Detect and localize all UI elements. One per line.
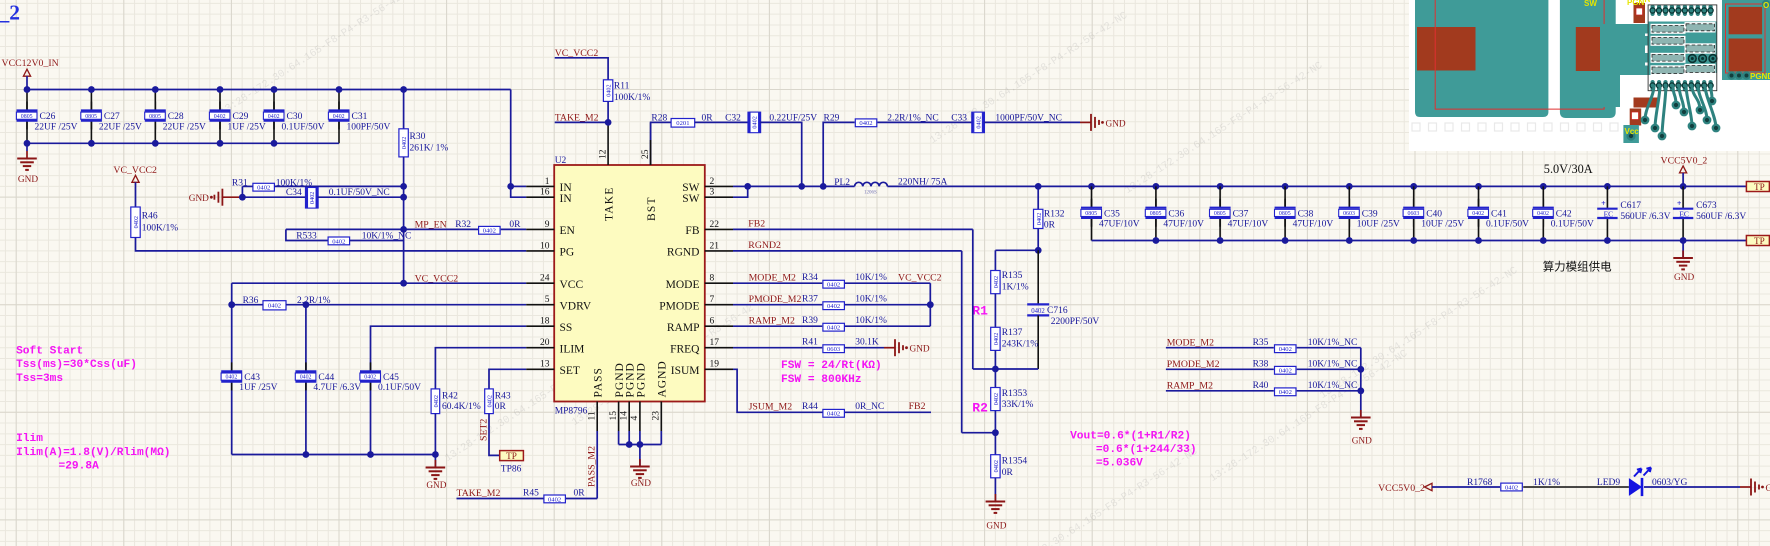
svg-text:0.1UF/50V: 0.1UF/50V	[282, 122, 325, 132]
svg-text:R34: R34	[802, 273, 818, 283]
svg-text:10K/1%: 10K/1%	[855, 273, 887, 283]
svg-text:0402: 0402	[1472, 211, 1484, 217]
svg-text:0R: 0R	[1002, 468, 1014, 478]
svg-text:_2: _2	[0, 1, 20, 25]
svg-text:R46: R46	[142, 212, 158, 222]
svg-text:VCC5V0_2: VCC5V0_2	[1378, 483, 1425, 494]
svg-text:0402: 0402	[483, 228, 496, 235]
svg-text:18: 18	[540, 317, 550, 327]
svg-text:19: 19	[710, 360, 720, 370]
svg-text:10K/1%: 10K/1%	[855, 316, 887, 326]
svg-text:14: 14	[619, 411, 629, 421]
svg-text:1UF /25V: 1UF /25V	[239, 383, 277, 393]
svg-text:0603: 0603	[1408, 211, 1420, 217]
svg-text:1K/1%: 1K/1%	[1533, 478, 1560, 488]
svg-text:0402: 0402	[1537, 211, 1549, 217]
svg-text:C44: C44	[318, 373, 334, 383]
svg-text:100K/1%: 100K/1%	[142, 224, 179, 234]
svg-text:VC_VCC2: VC_VCC2	[898, 273, 942, 284]
svg-text:C33: C33	[951, 113, 967, 123]
svg-text:17: 17	[710, 338, 720, 348]
svg-text:IN: IN	[560, 193, 573, 205]
svg-text:0R: 0R	[702, 113, 714, 123]
svg-text:1: 1	[545, 177, 550, 187]
svg-text:10UF /25V: 10UF /25V	[1421, 220, 1464, 230]
svg-text:C31: C31	[352, 112, 368, 122]
svg-text:FB2: FB2	[909, 401, 926, 412]
svg-text:1K/1%: 1K/1%	[1002, 282, 1029, 292]
svg-text:PMODE: PMODE	[659, 301, 699, 313]
svg-text:GND: GND	[631, 479, 651, 489]
svg-text:100K/1%: 100K/1%	[614, 93, 651, 103]
svg-text:C673: C673	[1696, 201, 1717, 211]
svg-text:0402: 0402	[268, 114, 280, 120]
svg-text:R43: R43	[495, 392, 511, 402]
svg-text:0R_NC: 0R_NC	[855, 402, 884, 412]
svg-text:R37: R37	[802, 295, 818, 305]
svg-text:10: 10	[540, 241, 550, 251]
svg-text:560UF /6.3V: 560UF /6.3V	[1696, 212, 1746, 222]
svg-text:=29.8A: =29.8A	[59, 460, 100, 472]
svg-text:R31: R31	[232, 178, 248, 188]
svg-text:ILIM: ILIM	[560, 344, 585, 356]
svg-text:0402: 0402	[268, 303, 281, 310]
svg-text:Vout=0.6*(1+R1/R2): Vout=0.6*(1+R1/R2)	[1070, 430, 1191, 442]
svg-text:0402: 0402	[300, 375, 312, 381]
svg-text:1206S: 1206S	[864, 190, 877, 195]
svg-text:R45: R45	[523, 488, 539, 498]
svg-text:0402: 0402	[1279, 346, 1292, 353]
svg-text:EN: EN	[560, 225, 576, 237]
svg-text:R38: R38	[1253, 360, 1269, 370]
svg-text:0402: 0402	[309, 192, 316, 204]
svg-text:2200PF/50V: 2200PF/50V	[1051, 317, 1100, 327]
svg-text:R132: R132	[1044, 210, 1065, 220]
svg-text:0402: 0402	[1279, 389, 1292, 396]
svg-text:5.0V/30A: 5.0V/30A	[1544, 162, 1593, 176]
svg-text:0805: 0805	[149, 114, 161, 120]
svg-text:R1768: R1768	[1467, 478, 1493, 488]
svg-text:0402: 0402	[993, 460, 1000, 472]
svg-text:4.7UF /6.3V: 4.7UF /6.3V	[313, 383, 361, 393]
svg-text:0402: 0402	[548, 496, 561, 503]
svg-text:22UF /25V: 22UF /25V	[99, 122, 142, 132]
svg-text:22UF /25V: 22UF /25V	[163, 122, 206, 132]
svg-text:0402: 0402	[827, 411, 840, 418]
svg-text:+: +	[1601, 199, 1606, 208]
svg-text:MP8796: MP8796	[555, 406, 588, 416]
svg-text:R35: R35	[1253, 338, 1269, 348]
svg-text:0402: 0402	[827, 325, 840, 332]
svg-text:C38: C38	[1298, 209, 1314, 219]
svg-text:0402: 0402	[364, 375, 376, 381]
svg-text:47UF/10V: 47UF/10V	[1099, 220, 1140, 230]
svg-text:TP: TP	[1754, 182, 1765, 192]
svg-text:25: 25	[641, 149, 651, 159]
svg-text:1UF /25V: 1UF /25V	[228, 122, 266, 132]
svg-text:Vcc: Vcc	[1625, 127, 1640, 136]
svg-text:GND: GND	[1674, 273, 1694, 283]
svg-text:C37: C37	[1233, 209, 1249, 219]
svg-text:20: 20	[540, 338, 550, 348]
svg-text:RAMP: RAMP	[667, 322, 700, 334]
svg-text:0805: 0805	[21, 114, 33, 120]
svg-text:0603: 0603	[1343, 211, 1355, 217]
svg-text:0805: 0805	[1085, 211, 1097, 217]
svg-text:3: 3	[710, 188, 715, 198]
svg-text:10K/1%_NC: 10K/1%_NC	[1308, 360, 1358, 370]
svg-text:C32: C32	[725, 113, 741, 123]
svg-text:261K/ 1%: 261K/ 1%	[410, 144, 449, 154]
svg-text:0.1UF/50V: 0.1UF/50V	[1551, 220, 1594, 230]
svg-text:PL2: PL2	[834, 178, 850, 188]
svg-text:22: 22	[710, 220, 720, 230]
svg-text:0603: 0603	[827, 346, 841, 353]
svg-text:R40: R40	[1253, 381, 1269, 391]
svg-text:C27: C27	[104, 112, 120, 122]
svg-text:13: 13	[540, 360, 550, 370]
svg-text:GND: GND	[910, 345, 930, 355]
svg-text:TAKE_M2: TAKE_M2	[457, 488, 501, 499]
svg-text:5: 5	[545, 295, 550, 305]
svg-text:23: 23	[652, 411, 662, 421]
svg-text:SW: SW	[682, 193, 699, 205]
svg-text:R42: R42	[442, 392, 458, 402]
svg-text:JSUM_M2: JSUM_M2	[749, 402, 793, 413]
svg-text:FB: FB	[685, 225, 699, 237]
svg-text:TP86: TP86	[501, 464, 522, 474]
svg-text:R28: R28	[651, 113, 667, 123]
svg-text:0R: 0R	[1044, 220, 1056, 230]
svg-text:PASS_M2: PASS_M2	[586, 446, 597, 487]
svg-text:0402: 0402	[226, 375, 238, 381]
svg-text:R135: R135	[1002, 271, 1023, 281]
svg-text:R137: R137	[1002, 328, 1023, 338]
svg-text:PG: PG	[560, 247, 575, 259]
svg-text:0.1UF/50V_NC: 0.1UF/50V_NC	[329, 188, 390, 198]
svg-text:R39: R39	[802, 316, 818, 326]
svg-text:0603/YG: 0603/YG	[1652, 478, 1688, 488]
svg-text:0201: 0201	[676, 120, 689, 127]
svg-text:U2: U2	[555, 156, 567, 166]
svg-text:8: 8	[710, 274, 715, 284]
svg-text:10UF /25V: 10UF /25V	[1357, 220, 1400, 230]
svg-text:0402: 0402	[433, 395, 440, 407]
svg-text:C43: C43	[244, 373, 260, 383]
svg-text:RAMP_M2: RAMP_M2	[749, 316, 795, 327]
svg-text:0402: 0402	[401, 137, 408, 149]
svg-text:0805: 0805	[85, 114, 97, 120]
svg-text:0402: 0402	[1505, 484, 1518, 491]
svg-text:0.22UF/25V: 0.22UF/25V	[769, 113, 817, 123]
svg-text:C35: C35	[1104, 209, 1120, 219]
svg-text:C26: C26	[40, 112, 56, 122]
svg-text:0402: 0402	[214, 114, 226, 120]
svg-text:0402: 0402	[333, 114, 345, 120]
svg-text:47UF/10V: 47UF/10V	[1228, 220, 1269, 230]
svg-text:2: 2	[710, 177, 715, 187]
svg-text:0402: 0402	[752, 116, 759, 128]
svg-text:RGND2: RGND2	[748, 240, 781, 251]
svg-text:R41: R41	[802, 338, 818, 348]
svg-text:FSW = 24/Rt(KΩ): FSW = 24/Rt(KΩ)	[781, 360, 882, 372]
svg-text:24: 24	[540, 274, 550, 284]
svg-text:0.1UF/50V: 0.1UF/50V	[1486, 220, 1529, 230]
svg-text:0805: 0805	[1150, 211, 1162, 217]
svg-text:AGND: AGND	[657, 360, 669, 397]
svg-text:11: 11	[587, 411, 597, 420]
svg-text:SET: SET	[560, 365, 580, 377]
svg-text:0R: 0R	[495, 402, 507, 412]
svg-text:EC: EC	[1604, 210, 1614, 219]
svg-text:C39: C39	[1362, 209, 1378, 219]
svg-text:1000PF/50V_NC: 1000PF/50V_NC	[995, 113, 1062, 123]
svg-text:FREQ: FREQ	[670, 344, 700, 356]
svg-text:RGND: RGND	[667, 247, 700, 259]
svg-text:33K/1%: 33K/1%	[1002, 400, 1034, 410]
svg-text:220NH/ 75A: 220NH/ 75A	[898, 178, 947, 188]
svg-text:EC: EC	[1679, 210, 1689, 219]
svg-text:0402: 0402	[993, 276, 1000, 288]
svg-text:=0.6*(1+244/33): =0.6*(1+244/33)	[1096, 444, 1197, 456]
svg-text:PMODE_M2: PMODE_M2	[749, 294, 802, 305]
svg-text:算力模组供电: 算力模组供电	[1543, 260, 1612, 274]
svg-text:0805: 0805	[1214, 211, 1226, 217]
svg-text:0402: 0402	[1031, 308, 1045, 315]
svg-text:GND: GND	[426, 481, 446, 491]
svg-text:47UF/10V: 47UF/10V	[1163, 220, 1204, 230]
svg-text:PASS: PASS	[593, 367, 605, 397]
svg-text:9: 9	[545, 220, 550, 230]
svg-text:16: 16	[540, 188, 550, 198]
svg-text:FB2: FB2	[748, 219, 765, 230]
svg-text:Tss=3ms: Tss=3ms	[16, 373, 63, 385]
svg-text:Ilim: Ilim	[16, 433, 43, 445]
svg-text:0402: 0402	[487, 395, 494, 407]
svg-text:Ilim(A)=1.8(V)/Rlim(MΩ): Ilim(A)=1.8(V)/Rlim(MΩ)	[16, 447, 170, 459]
svg-text:0402: 0402	[606, 84, 613, 96]
svg-text:10K/1%: 10K/1%	[855, 295, 887, 305]
svg-text:TAKE: TAKE	[604, 186, 616, 221]
svg-text:560UF /6.3V: 560UF /6.3V	[1620, 212, 1670, 222]
svg-text:2.2R/1%: 2.2R/1%	[297, 296, 331, 306]
svg-text:PGND: PGND	[1750, 72, 1770, 81]
svg-text:0.1UF/50V: 0.1UF/50V	[378, 383, 421, 393]
svg-text:R32: R32	[455, 220, 471, 230]
svg-text:0805: 0805	[1279, 211, 1291, 217]
svg-text:C28: C28	[168, 112, 184, 122]
svg-text:GND: GND	[986, 522, 1006, 532]
svg-text:R44: R44	[802, 402, 818, 412]
svg-text:C42: C42	[1556, 209, 1572, 219]
svg-text:22UF /25V: 22UF /25V	[35, 122, 78, 132]
svg-text:SET2: SET2	[479, 419, 490, 441]
svg-text:SS: SS	[560, 322, 573, 334]
svg-text:LED9: LED9	[1597, 478, 1620, 488]
svg-text:MODE: MODE	[666, 279, 700, 291]
svg-text:60.4K/1%: 60.4K/1%	[442, 402, 481, 412]
svg-text:VCC: VCC	[560, 279, 584, 291]
svg-text:R11: R11	[614, 82, 630, 92]
svg-text:0402: 0402	[975, 116, 982, 128]
svg-text:BST: BST	[646, 196, 658, 221]
svg-text:C29: C29	[233, 112, 249, 122]
svg-text:=5.036V: =5.036V	[1096, 458, 1143, 470]
svg-text:C40: C40	[1426, 209, 1442, 219]
svg-text:+: +	[1677, 199, 1682, 208]
svg-text:C617: C617	[1620, 201, 1641, 211]
svg-text:0402: 0402	[993, 333, 1000, 345]
svg-text:GND: GND	[1766, 484, 1770, 494]
svg-text:21: 21	[710, 241, 720, 251]
svg-text:10K/1%_NC: 10K/1%_NC	[1308, 381, 1358, 391]
svg-text:0402: 0402	[827, 303, 840, 310]
svg-text:0402: 0402	[257, 185, 270, 192]
svg-text:VCC5V0_2: VCC5V0_2	[1661, 155, 1708, 166]
svg-text:C716: C716	[1047, 306, 1068, 316]
svg-text:4: 4	[630, 416, 640, 421]
svg-text:ISUM: ISUM	[671, 365, 700, 377]
svg-text:MODE_M2: MODE_M2	[749, 273, 796, 284]
svg-text:TP: TP	[506, 451, 517, 461]
svg-text:C34: C34	[286, 188, 302, 198]
svg-text:C36: C36	[1168, 209, 1184, 219]
svg-text:0R: 0R	[509, 220, 521, 230]
svg-text:12: 12	[598, 149, 608, 159]
svg-text:100K/1%: 100K/1%	[276, 178, 313, 188]
svg-text:SW: SW	[1584, 0, 1597, 8]
svg-text:6: 6	[710, 317, 715, 327]
svg-text:0402: 0402	[1279, 368, 1292, 375]
svg-text:GND: GND	[18, 175, 38, 185]
svg-text:R30: R30	[410, 132, 426, 142]
svg-text:C41: C41	[1491, 209, 1507, 219]
svg-text:R1354: R1354	[1002, 457, 1028, 467]
svg-text:Tss(ms)=30*Css(uF): Tss(ms)=30*Css(uF)	[16, 359, 137, 371]
svg-text:VDRV: VDRV	[560, 301, 592, 313]
svg-text:30.1K: 30.1K	[855, 338, 879, 348]
svg-text:VCC12V0_IN: VCC12V0_IN	[2, 58, 59, 69]
svg-text:R2: R2	[972, 401, 988, 416]
svg-text:15: 15	[609, 411, 619, 421]
svg-text:0402: 0402	[332, 238, 345, 245]
svg-text:100PF/50V: 100PF/50V	[347, 122, 391, 132]
svg-text:C30: C30	[287, 112, 303, 122]
svg-text:R1353: R1353	[1002, 389, 1028, 399]
svg-text:R36: R36	[243, 296, 259, 306]
svg-text:TP: TP	[1754, 236, 1765, 246]
svg-text:0R: 0R	[574, 488, 586, 498]
svg-text:Soft Start: Soft Start	[16, 346, 83, 358]
svg-text:0402: 0402	[827, 282, 840, 289]
svg-text:47UF/10V: 47UF/10V	[1293, 220, 1334, 230]
svg-text:0402: 0402	[859, 120, 872, 127]
svg-text:O: O	[1763, 1, 1769, 10]
svg-text:GND: GND	[1106, 119, 1126, 129]
svg-text:10K/1%_NC: 10K/1%_NC	[362, 231, 412, 241]
svg-text:R1: R1	[972, 304, 988, 319]
svg-text:C45: C45	[383, 373, 399, 383]
svg-text:7: 7	[710, 295, 715, 305]
svg-text:FSW = 800KHz: FSW = 800KHz	[781, 374, 862, 386]
svg-text:GND: GND	[189, 194, 209, 204]
svg-text:0402: 0402	[1036, 213, 1043, 225]
svg-text:R29: R29	[824, 113, 840, 123]
svg-text:R533: R533	[296, 231, 317, 241]
svg-text:PGND: PGND	[635, 362, 647, 397]
svg-text:2.2R/1%_NC: 2.2R/1%_NC	[887, 113, 938, 123]
svg-text:GND: GND	[1352, 437, 1372, 447]
svg-text:0402: 0402	[133, 216, 140, 228]
svg-text:0402: 0402	[993, 393, 1000, 405]
svg-text:10K/1%_NC: 10K/1%_NC	[1308, 338, 1358, 348]
svg-text:243K/1%: 243K/1%	[1002, 339, 1039, 349]
